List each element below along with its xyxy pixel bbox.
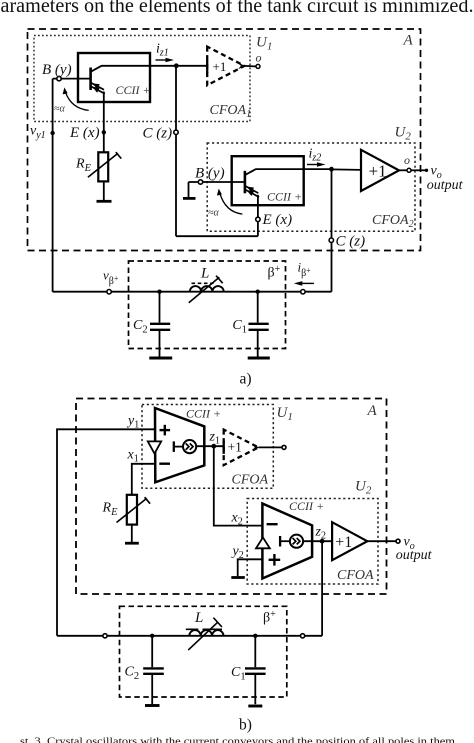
outer dashed box A (block A, circuit a) xyxy=(28,29,421,251)
svg-text:arameters on the elements of t: arameters on the elements of the tank ci… xyxy=(1,0,474,17)
wire mirror to z1 xyxy=(196,445,224,447)
wire emitter Q1 to E(x) node and R_E xyxy=(103,92,105,153)
minus terminal x2 xyxy=(267,523,278,525)
dotted box U1 (b) xyxy=(142,405,273,489)
svg-text:+1: +1 xyxy=(335,534,352,551)
wire z2 down to tank xyxy=(321,541,323,636)
op-amp CCII2 trapezoid (b) xyxy=(262,504,312,579)
buffer U2 triangle +1 xyxy=(361,150,399,191)
capacitor C1 (a) xyxy=(249,292,269,357)
node C(z) 1 xyxy=(174,130,178,134)
wire buffer out (b1) xyxy=(259,446,282,448)
svg-text:C (z): C (z) xyxy=(336,234,366,250)
node C(z) 2 xyxy=(329,238,333,242)
svg-text:CCII +: CCII + xyxy=(116,83,151,97)
wire buffer2 output xyxy=(399,169,407,171)
inductor adjust arrow xyxy=(189,276,223,303)
svg-text:CCII +: CCII + xyxy=(289,499,324,513)
label i_z1 with arrow xyxy=(156,42,175,63)
svg-text:L: L xyxy=(194,610,203,626)
tank dashed box (a) xyxy=(129,261,286,349)
terminal beta+ circle right xyxy=(301,290,305,294)
wire z1 down to x2 xyxy=(214,446,263,525)
terminal v_beta+ circle xyxy=(107,290,111,294)
wire buffer out (b2) xyxy=(367,540,396,542)
wire R_E to ground (b) xyxy=(131,525,133,542)
wire x1 to R_E xyxy=(132,464,155,495)
wire C(z)1 vertical xyxy=(175,66,177,236)
terminal circle tank left (b) xyxy=(103,634,107,638)
node output end dot xyxy=(425,169,428,172)
node z1 junction xyxy=(174,63,179,68)
wire node to buffer 1 xyxy=(176,65,207,67)
tank dashed box (b) xyxy=(120,606,287,697)
op-amp box CCII2 xyxy=(232,156,304,205)
ground (C1 b) xyxy=(248,705,262,708)
ground (C2 b) xyxy=(145,704,160,707)
wire B(y) input xyxy=(53,78,91,80)
wire tank rail (b) xyxy=(57,635,322,637)
svg-text:st. 3. Crystal oscillators wit: st. 3. Crystal oscillators with the curr… xyxy=(20,737,455,743)
op-amp CCII1 trapezoid (b) xyxy=(155,408,204,482)
node E(x) 2 xyxy=(256,217,260,221)
svg-text:E (x): E (x) xyxy=(69,125,100,141)
alpha arrow 1 xyxy=(54,87,89,114)
resistor R_E (a) xyxy=(88,152,121,181)
terminal o circle (U2 out) xyxy=(407,168,411,172)
transistor Q1 xyxy=(91,66,177,94)
wire R_E to ground xyxy=(103,181,105,200)
resistor R_E (b) xyxy=(117,495,151,525)
svg-text:A: A xyxy=(367,403,378,419)
node B(y) 2 xyxy=(198,180,202,184)
node z2 junction xyxy=(329,167,334,172)
svg-text:b): b) xyxy=(239,717,252,734)
outer dashed box A (circuit b) xyxy=(76,399,387,595)
svg-text:CFOA: CFOA xyxy=(337,568,374,583)
svg-text:output: output xyxy=(427,178,464,193)
svg-text:o: o xyxy=(404,153,410,167)
follower triangle (b2) xyxy=(256,537,270,548)
ground (R_E a) xyxy=(97,200,112,203)
svg-text:CFOA2: CFOA2 xyxy=(372,213,414,230)
capacitor C1 (b) xyxy=(245,636,266,704)
node v_y1 xyxy=(50,131,54,135)
wire buffer1 output xyxy=(245,65,256,68)
label i_z2 with arrow xyxy=(307,147,326,167)
svg-text:+1: +1 xyxy=(228,440,242,455)
follower triangle (b1) xyxy=(148,441,161,453)
terminal o circle (U1 out) xyxy=(256,64,260,68)
svg-text:B (y): B (y) xyxy=(42,62,72,78)
current mirror (b1) xyxy=(174,440,196,453)
wire output stub xyxy=(411,169,426,171)
inductor L (a) xyxy=(190,286,224,292)
terminal circle (b1 out) xyxy=(282,445,286,449)
alpha arrow 2 xyxy=(208,189,242,219)
ground (y2) xyxy=(231,576,245,579)
node C2 junction (b) xyxy=(150,634,154,638)
svg-text:+1: +1 xyxy=(369,162,387,181)
svg-text:CCII +: CCII + xyxy=(267,189,302,203)
svg-text:L: L xyxy=(200,266,209,282)
svg-text:+1: +1 xyxy=(213,59,227,74)
svg-text:o: o xyxy=(256,51,262,65)
wire C(z)2 vertical to tank xyxy=(331,169,333,292)
inductor core dashes xyxy=(192,282,214,284)
wire B(y)2 input with ground xyxy=(189,182,245,198)
node B(y) 1 xyxy=(57,76,61,80)
svg-text:CFOA1: CFOA1 xyxy=(210,103,252,120)
ground (B(y)2) xyxy=(183,197,196,200)
wire y1 input rail xyxy=(57,429,155,636)
ground (C2 a) xyxy=(149,357,172,360)
wire node to buffer 2 xyxy=(332,168,362,171)
svg-text:B (y): B (y) xyxy=(195,166,225,182)
buffer U1 dashed triangle +1 xyxy=(207,47,245,86)
buffer triangle +1 (b2) xyxy=(332,522,367,560)
node z1 (b) xyxy=(211,444,216,449)
arrow i_beta+ (left) xyxy=(294,281,314,286)
wire left rail from B(y) down to tank xyxy=(52,79,54,292)
svg-text:CCII +: CCII + xyxy=(186,407,221,421)
plus terminal y1 xyxy=(160,425,171,436)
current mirror (b2) xyxy=(280,535,303,548)
dashed box CFOA2/U2 xyxy=(207,143,415,231)
ground (C1 a) xyxy=(248,357,270,360)
wire mirror to z2 xyxy=(303,540,333,542)
svg-text:≈α: ≈α xyxy=(208,208,219,219)
terminal circle v_o (b) xyxy=(396,539,400,543)
transistor Q2 xyxy=(245,169,332,197)
node z2 (b) xyxy=(320,539,325,544)
node E(x) 1 xyxy=(102,130,106,134)
buffer dashed triangle +1 (b1) xyxy=(224,430,260,466)
svg-text:output: output xyxy=(396,548,433,563)
svg-text:a): a) xyxy=(240,371,252,388)
node C1 junction (b) xyxy=(253,634,257,638)
plus terminal y2 xyxy=(269,554,281,566)
wire tank top rail (a) xyxy=(53,291,332,293)
wire y2 with ground xyxy=(238,559,263,576)
dotted box CFOA1 xyxy=(34,36,250,122)
wire emitter Q2 down to link xyxy=(257,195,259,236)
svg-text:A: A xyxy=(403,33,414,49)
svg-text:≈α: ≈α xyxy=(54,104,65,115)
ground (R_E b) xyxy=(125,542,139,545)
dotted box U2 (b) xyxy=(247,499,378,585)
svg-text:C (z): C (z) xyxy=(143,126,173,142)
capacitor C2 (b) xyxy=(143,636,164,704)
inductor core dashes (b) xyxy=(186,628,222,630)
op-amp box CCII1 xyxy=(78,53,150,102)
node C2 junction xyxy=(157,290,161,294)
svg-text:CFOA: CFOA xyxy=(232,473,269,488)
node C1 junction xyxy=(256,290,260,294)
svg-text:E (x): E (x) xyxy=(262,212,293,228)
inductor adjust arrow (b) xyxy=(188,618,222,651)
capacitor C2 (a) xyxy=(150,292,170,357)
inductor L (b) xyxy=(189,630,223,636)
minus terminal x1 xyxy=(159,463,170,465)
wire link z1 to x2 (horizontal) xyxy=(176,235,258,237)
terminal circle tank right (b) xyxy=(301,634,305,638)
